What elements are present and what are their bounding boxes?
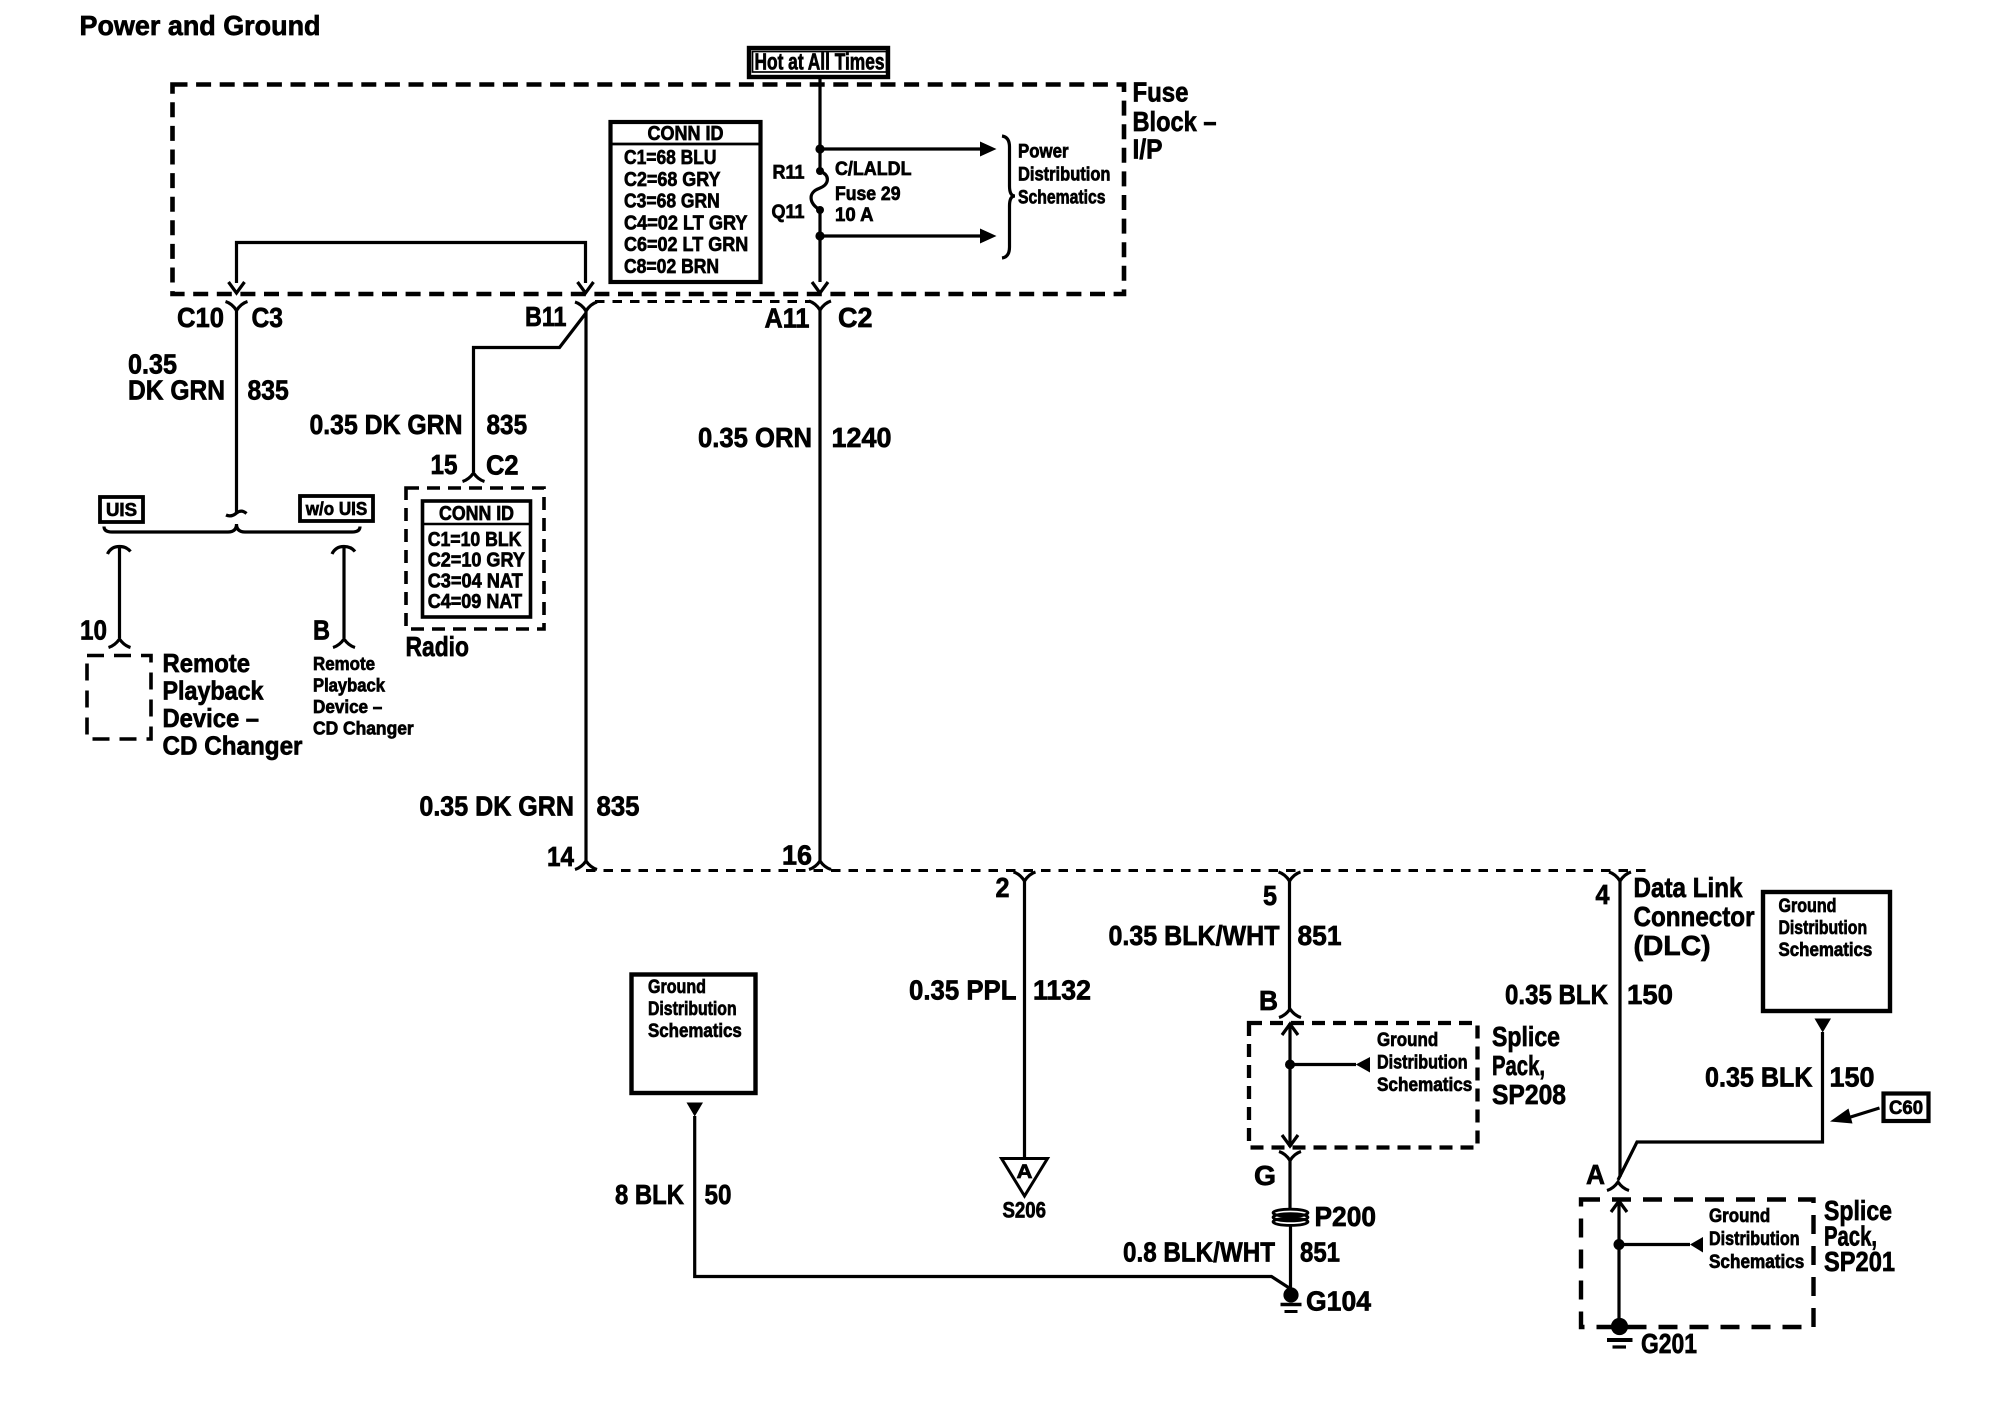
splice junction dot SP201 — [1614, 1239, 1625, 1250]
arrowhead pointing to splice SP208 — [1356, 1057, 1370, 1073]
svg-text:150: 150 — [1830, 1062, 1875, 1093]
svg-text:Hot at All Times: Hot at All Times — [755, 49, 885, 75]
svg-text:Device –: Device – — [313, 697, 382, 717]
label Splice Pack, SP208 — [1492, 1021, 1566, 1110]
svg-text:Q11: Q11 — [772, 202, 805, 223]
svg-text:0.35 ORN: 0.35 ORN — [698, 422, 812, 453]
CONN ID table (radio) — [423, 501, 531, 617]
svg-text:A11: A11 — [765, 303, 810, 334]
wire through SP208 — [1288, 1023, 1291, 1147]
svg-text:CD Changer: CD Changer — [313, 719, 414, 739]
splice reference line SP208 — [1290, 1063, 1356, 1066]
wire G down to P200 — [1288, 1160, 1291, 1210]
hook start of UIS branch — [108, 547, 131, 555]
svg-text:4: 4 — [1596, 879, 1610, 910]
svg-text:0.35 BLK/WHT: 0.35 BLK/WHT — [1109, 920, 1280, 951]
label Splice Pack, SP201 — [1824, 1195, 1895, 1277]
svg-text:Schematics: Schematics — [648, 1021, 742, 1042]
C60 pointer line — [1849, 1108, 1880, 1118]
internal fuse block bus C3 to B11 — [237, 243, 586, 284]
hook start of w/o UIS branch — [332, 547, 355, 555]
wire hot feed from Hot at All Times down to fuse — [818, 77, 821, 168]
arrowhead pointing to splice SP201 — [1690, 1237, 1703, 1253]
connector hook pin B — [333, 639, 355, 648]
svg-text:G201: G201 — [1641, 1328, 1697, 1359]
svg-text:CONN ID: CONN ID — [648, 123, 724, 145]
svg-text:w/o UIS: w/o UIS — [305, 499, 367, 519]
arrow up at SP208 top — [1282, 1024, 1298, 1035]
connector chevron B11 — [575, 302, 597, 311]
wire branch B11 to radio C2 pin 15 — [474, 313, 587, 472]
svg-text:C2: C2 — [486, 450, 519, 481]
connector hook A — [1607, 1182, 1629, 1191]
splice pack SP201 dashed box — [1581, 1200, 1814, 1328]
svg-text:2: 2 — [996, 872, 1010, 903]
svg-text:CD Changer: CD Changer — [163, 731, 303, 761]
svg-text:Fuse: Fuse — [1133, 77, 1189, 108]
svg-text:C4=09 NAT: C4=09 NAT — [428, 591, 522, 613]
svg-text:1132: 1132 — [1033, 975, 1091, 1006]
C60 label box — [1884, 1094, 1929, 1122]
svg-text:0.35 DK GRN: 0.35 DK GRN — [419, 791, 574, 822]
svg-text:C3: C3 — [252, 302, 284, 333]
svg-text:16: 16 — [782, 840, 812, 871]
arrowhead upper branch — [980, 142, 997, 157]
label Remote Playback Device - CD Changer (UIS) — [163, 648, 303, 761]
label 0.35 DK GRN (C3 wire) — [128, 349, 225, 406]
svg-text:Distribution: Distribution — [648, 999, 737, 1020]
wire branch to power distribution (lower) — [820, 234, 981, 237]
arrow into B11 (open V) — [578, 282, 594, 293]
connector hook radio pin 15 — [463, 473, 485, 482]
svg-text:UIS: UIS — [106, 500, 137, 520]
svg-text:C1=68 BLU: C1=68 BLU — [624, 147, 717, 169]
svg-text:Block –: Block – — [1133, 106, 1217, 137]
terminal dot Q11 — [816, 206, 824, 214]
svg-text:C2: C2 — [838, 302, 873, 333]
thin dashed connector line between B11 and A11 — [595, 300, 811, 303]
svg-text:P200: P200 — [1315, 1201, 1377, 1232]
svg-text:C3=04 NAT: C3=04 NAT — [428, 570, 523, 592]
svg-text:835: 835 — [248, 375, 289, 406]
arrow up at SP201 top — [1611, 1201, 1627, 1212]
svg-text:Ground: Ground — [1709, 1206, 1770, 1227]
brace power distribution — [1002, 136, 1015, 258]
svg-text:C2=10 GRY: C2=10 GRY — [428, 550, 526, 572]
connector chevron 4 — [1609, 872, 1631, 881]
CONN ID table (fuse block) — [611, 122, 761, 282]
svg-text:835: 835 — [487, 409, 528, 440]
label Fuse Block - I/P — [1133, 77, 1217, 165]
Hot at All Times label box — [749, 48, 888, 77]
svg-text:0.8 BLK/WHT: 0.8 BLK/WHT — [1123, 1237, 1275, 1268]
ground G201 — [1607, 1318, 1633, 1347]
UIS alternative split brace — [104, 524, 360, 532]
svg-text:Connector: Connector — [1634, 901, 1755, 932]
wire through SP201 — [1617, 1200, 1620, 1321]
svg-text:Remote: Remote — [163, 648, 251, 678]
svg-text:C10: C10 — [177, 302, 224, 333]
arrow down at SP208 bottom — [1282, 1135, 1298, 1146]
svg-text:Playback: Playback — [163, 676, 264, 706]
wire 8 BLK 50 to G104 — [695, 1116, 1290, 1289]
svg-text:Schematics: Schematics — [1779, 940, 1873, 961]
svg-text:Device –: Device – — [163, 703, 260, 733]
svg-text:Schematics: Schematics — [1377, 1075, 1472, 1096]
C60 pointer arrowhead — [1830, 1109, 1853, 1124]
arrowhead lower branch — [980, 229, 997, 244]
splice symbol S206 triangle — [1002, 1159, 1048, 1197]
svg-text:C6=02 LT GRN: C6=02 LT GRN — [624, 234, 748, 256]
splice pack SP208 dashed box — [1249, 1023, 1478, 1148]
svg-text:(DLC): (DLC) — [1634, 930, 1711, 961]
svg-text:G104: G104 — [1306, 1286, 1371, 1317]
svg-text:Fuse 29: Fuse 29 — [835, 184, 901, 205]
connector hook 16 — [809, 861, 831, 870]
svg-text:CONN ID: CONN ID — [439, 503, 514, 525]
arrowhead below right box — [1815, 1019, 1832, 1033]
svg-text:Ground: Ground — [1377, 1030, 1438, 1051]
fuse 29 element (S-curve) — [811, 171, 827, 210]
label Power Distribution Schematics — [1018, 142, 1111, 209]
svg-text:B: B — [1259, 985, 1278, 1016]
svg-text:Distribution: Distribution — [1709, 1229, 1800, 1250]
UIS label box — [100, 497, 143, 522]
svg-text:Remote: Remote — [313, 654, 375, 674]
wire 4 down to A — [1618, 880, 1621, 1177]
svg-text:C3=68 GRN: C3=68 GRN — [624, 191, 720, 213]
svg-text:15: 15 — [431, 449, 458, 480]
arrow into C10 (open V) — [229, 282, 245, 293]
svg-text:C4=02 LT GRY: C4=02 LT GRY — [624, 212, 748, 234]
svg-text:Splice: Splice — [1492, 1021, 1560, 1052]
svg-text:Ground: Ground — [648, 977, 706, 998]
svg-text:A: A — [1017, 1162, 1033, 1183]
fuse block I/P dashed box — [173, 85, 1125, 295]
svg-text:B11: B11 — [525, 301, 567, 332]
svg-text:C1=10 BLK: C1=10 BLK — [428, 529, 522, 551]
wire UIS branch down to pin 10 — [118, 547, 121, 638]
svg-text:Power and Ground: Power and Ground — [80, 10, 321, 41]
label Data Link Connector (DLC) — [1634, 872, 1755, 961]
wire w/o UIS branch down to pin B — [342, 547, 345, 638]
svg-text:8 BLK: 8 BLK — [615, 1179, 684, 1210]
ground G104 — [1281, 1287, 1302, 1311]
wire P200 down to G104 — [1289, 1226, 1292, 1291]
curl at wire end above split — [226, 511, 247, 516]
ground distribution schematics box (right) — [1763, 892, 1890, 1011]
svg-text:1240: 1240 — [832, 422, 892, 453]
arrowhead below left box — [687, 1103, 704, 1117]
ground distribution schematics box (left) — [632, 975, 756, 1094]
CD changer dashed box — [87, 656, 151, 740]
splice reference line SP201 — [1619, 1243, 1690, 1246]
wire 2 down to S206 — [1023, 880, 1026, 1158]
radio dashed box — [406, 488, 544, 629]
svg-text:Ground: Ground — [1779, 896, 1837, 917]
splice junction dot SP208 — [1285, 1060, 1295, 1070]
connector hook B — [1279, 1009, 1301, 1018]
wire from fuse down to A11 — [818, 214, 821, 283]
wire C60 branch — [1618, 1032, 1823, 1180]
svg-text:Playback: Playback — [313, 676, 386, 696]
svg-text:50: 50 — [705, 1179, 732, 1210]
w/o UIS label box — [300, 496, 373, 521]
svg-text:10: 10 — [80, 615, 107, 646]
svg-text:0.35 PPL: 0.35 PPL — [909, 975, 1017, 1006]
connector chevron 5 — [1279, 872, 1301, 881]
connector hook 14 — [575, 861, 597, 870]
svg-text:Distribution: Distribution — [1779, 918, 1868, 939]
svg-text:G: G — [1254, 1160, 1276, 1191]
connector hook pin 10 — [109, 639, 131, 648]
wire 5 down to B — [1288, 880, 1291, 1009]
svg-text:10 A: 10 A — [835, 205, 874, 226]
label Remote Playback Device - CD Changer (w/o UIS) — [313, 654, 414, 739]
svg-text:Power: Power — [1018, 142, 1069, 163]
svg-text:C60: C60 — [1889, 1098, 1923, 1119]
svg-text:Schematics: Schematics — [1709, 1252, 1804, 1273]
svg-text:150: 150 — [1627, 979, 1673, 1010]
svg-text:Radio: Radio — [406, 631, 470, 662]
svg-text:Schematics: Schematics — [1018, 188, 1106, 209]
svg-text:Pack,: Pack, — [1492, 1050, 1545, 1081]
svg-text:DK GRN: DK GRN — [128, 375, 225, 406]
wire branch to power distribution (upper) — [820, 147, 981, 150]
svg-text:C8=02 BRN: C8=02 BRN — [624, 256, 719, 278]
svg-text:5: 5 — [1263, 880, 1277, 911]
svg-text:S206: S206 — [1003, 1198, 1047, 1223]
svg-text:851: 851 — [1298, 920, 1342, 951]
connector chevron 2 — [1014, 872, 1036, 881]
junction dot lower branch — [815, 231, 824, 240]
junction dot upper branch — [815, 144, 824, 153]
svg-text:I/P: I/P — [1133, 134, 1163, 165]
terminal dot R11 — [816, 167, 824, 175]
svg-text:0.35 DK GRN: 0.35 DK GRN — [310, 409, 463, 440]
label Ground Distribution Schematics (SP208) — [1377, 1030, 1472, 1096]
wire B11 down to 14 — [584, 311, 587, 862]
svg-text:SP201: SP201 — [1824, 1246, 1895, 1277]
svg-text:C2=68 GRY: C2=68 GRY — [624, 169, 721, 191]
svg-text:A: A — [1586, 1159, 1605, 1190]
svg-text:R11: R11 — [773, 163, 805, 184]
wire A11 down to 16 — [818, 310, 821, 862]
connector chevron G — [1279, 1152, 1301, 1161]
svg-text:B: B — [313, 615, 330, 646]
svg-text:14: 14 — [547, 841, 574, 872]
label C/LALDL Fuse 29 10 A — [835, 159, 912, 226]
svg-text:Distribution: Distribution — [1377, 1053, 1468, 1074]
connector chevron A11 — [809, 301, 831, 310]
pigtail P200 — [1273, 1209, 1308, 1225]
arrow into A11 (open V) — [812, 282, 828, 293]
connector chevron C3 — [226, 302, 248, 311]
svg-text:Distribution: Distribution — [1018, 165, 1111, 186]
svg-text:835: 835 — [597, 791, 640, 822]
svg-text:0.35 BLK: 0.35 BLK — [1705, 1062, 1813, 1093]
wire C3 down to UIS split — [235, 310, 238, 513]
svg-text:851: 851 — [1300, 1237, 1340, 1268]
label Ground Distribution Schematics (SP201) — [1709, 1206, 1804, 1273]
svg-text:Data Link: Data Link — [1634, 872, 1743, 903]
svg-text:C/LALDL: C/LALDL — [835, 159, 912, 180]
svg-text:0.35 BLK: 0.35 BLK — [1505, 979, 1608, 1010]
svg-text:SP208: SP208 — [1492, 1079, 1566, 1110]
thin dashed connector line 14 to DLC A — [586, 869, 1646, 872]
